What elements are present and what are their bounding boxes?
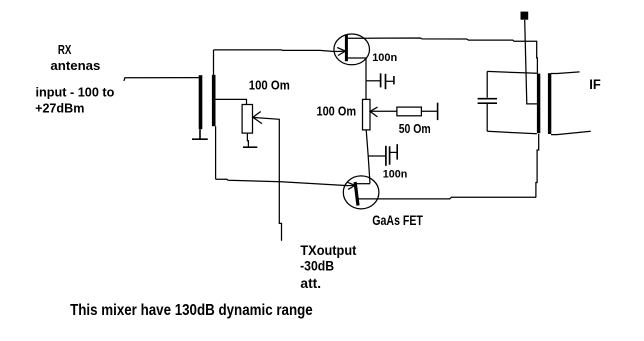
resistor R3 50 Om body [397, 107, 422, 116]
wire IF secondary top stub [551, 72, 580, 74]
wire tank loop bottom [487, 131, 537, 134]
wire input from left with end tick [124, 78, 199, 81]
wire bottom rail to Q2 gate [216, 179, 355, 185]
wire T1 secondary bottom down [215, 126, 217, 179]
svg-text:GaAs FET: GaAs FET [372, 213, 423, 228]
svg-text:100n: 100n [383, 168, 408, 180]
ground at R1 [243, 146, 257, 148]
capacitor C2 100n branch wire [368, 155, 386, 157]
wire IF secondary bottom stub [551, 131, 591, 134]
svg-text:att.: att. [300, 276, 321, 291]
svg-text:50 Om: 50 Om [399, 121, 431, 136]
wire C2 to terminal [390, 151, 398, 153]
terminal T-bar at R3 [437, 103, 439, 120]
transformer T1 secondary winding bar [212, 75, 216, 126]
svg-text:IF: IF [589, 76, 601, 92]
svg-text:input - 100 to: input - 100 to [36, 85, 115, 100]
svg-text:100 Om: 100 Om [317, 104, 357, 119]
arrowhead Q1 gate [337, 48, 345, 56]
transistor Q2 GaAs FET circle [343, 176, 379, 209]
wire rail corner down to T1 secondary top [213, 50, 215, 75]
potentiometer R2 100 Om body [363, 99, 371, 129]
svg-text:+27dBm: +27dBm [35, 101, 84, 116]
svg-text:-30dB: -30dB [300, 259, 334, 274]
wire R3 to terminal [421, 110, 437, 112]
svg-text:TXoutput: TXoutput [300, 243, 356, 258]
transistor Q2 channel bar [355, 182, 358, 206]
potentiometer R1 100 Om body [242, 105, 252, 134]
wiper arrow of R2 [370, 107, 378, 117]
terminal T-bar at C2 [396, 144, 398, 159]
transformer T1 primary winding bar [199, 75, 203, 129]
wire T1 secondary tap to pot R1 [215, 99, 247, 104]
wire supply from square to T2 center tap [525, 20, 537, 104]
capacitor C2 plate right [389, 146, 391, 164]
svg-text:100n: 100n [372, 52, 397, 64]
capacitor C2 plate left [385, 146, 387, 166]
wire Q1 source down to pot R2 [365, 81, 367, 100]
transformer T2 IF secondary bar [548, 73, 551, 134]
wire tank loop top [487, 71, 537, 73]
capacitor C1 plate right [385, 74, 387, 89]
wiper arrow of R1 [253, 112, 262, 124]
wire top rail to Q1 gate [214, 50, 346, 52]
ground at T1 primary [192, 129, 208, 139]
capacitor C1 100n branch wire [366, 80, 381, 82]
wire R1 wiper to TX output [253, 117, 282, 240]
transistor Q1 GaAs FET circle [334, 34, 370, 65]
svg-text:100 Om: 100 Om [249, 78, 290, 93]
capacitor C1 plate left [380, 73, 382, 87]
wire Q2 source to right [358, 197, 536, 199]
wire tank loop left lower [486, 103, 488, 131]
wire Q1 drain top rail to IF transformer [367, 38, 537, 74]
wire R2 bottom down to Q2 drain [366, 130, 370, 184]
wire Q1 drain [348, 37, 367, 39]
transistor Q1 channel bar [345, 35, 348, 61]
wire Q2 drain connect [356, 183, 370, 185]
wire Q1 source [348, 58, 366, 81]
wire R1 bottom stub [247, 133, 248, 147]
transformer T2 IF primary bar [537, 74, 540, 134]
capacitor C3 plate bottom [478, 102, 497, 104]
wire right side up to IF primary bottom [536, 134, 539, 198]
supply node black square [521, 12, 529, 20]
capacitor C3 plate top [478, 98, 497, 100]
terminal T-bar at C1 [393, 76, 395, 84]
svg-text:This mixer have 130dB dynamic: This mixer have 130dB dynamic range [70, 302, 313, 319]
svg-text:antenas: antenas [50, 58, 100, 73]
wire tank loop left upper [486, 71, 488, 97]
wire C1 to terminal [386, 80, 394, 82]
wire R2 wiper to R3 [370, 110, 397, 112]
svg-text:RX: RX [58, 42, 72, 57]
arrowhead Q2 gate [348, 182, 355, 189]
